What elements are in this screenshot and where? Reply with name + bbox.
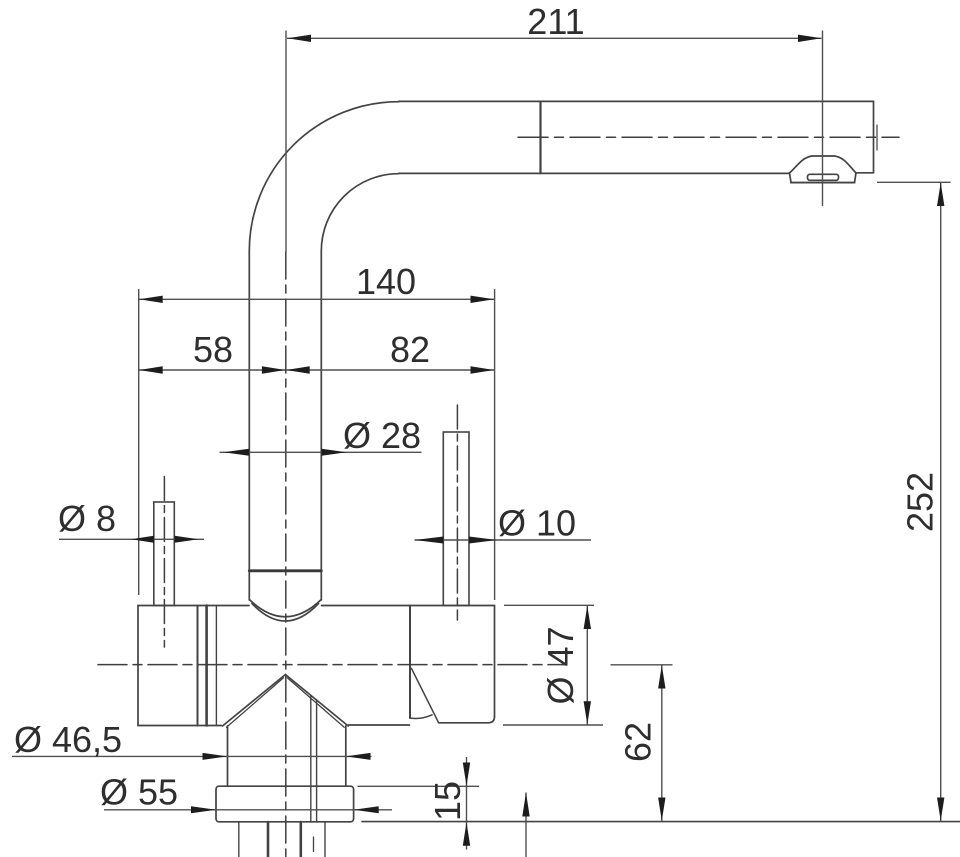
svg-text:140: 140 [356, 261, 416, 302]
right valve arc [410, 715, 432, 719]
dia10 leader [415, 539, 592, 541]
arrow 62 bottom [658, 798, 665, 821]
base reference arrow line [525, 793, 527, 857]
pipe socket arc lower [252, 604, 319, 622]
tube axis dash [313, 837, 315, 852]
right valve vertical [409, 606, 411, 719]
tailpiece tube 4 [324, 822, 326, 857]
aerator nozzle [808, 174, 839, 180]
body bottom left [138, 725, 222, 727]
cartridge line 1 [197, 606, 199, 726]
pipe socket arc upper [249, 600, 321, 617]
pipe right wall [320, 251, 322, 600]
aerator dome [790, 156, 857, 173]
spout top line [399, 100, 874, 102]
pipe axis centerline [285, 252, 287, 857]
arrow dia46.5 right [346, 753, 371, 760]
neck left wall [227, 726, 229, 786]
right rod axis [456, 405, 458, 620]
dia47 top extension [504, 604, 594, 606]
arrow 140 left [139, 296, 163, 303]
arrow 62 top [658, 665, 665, 688]
arrow 15 bottom [463, 822, 470, 846]
cartridge line 2 [205, 606, 208, 726]
left handle rod [154, 502, 175, 606]
svg-text:252: 252 [900, 472, 941, 532]
spout end tick [876, 125, 878, 150]
left rod axis [163, 477, 165, 648]
pipe bend inner arc [321, 174, 398, 251]
dim 211 left extension [285, 31, 287, 253]
svg-text:Ø 47: Ø 47 [540, 626, 581, 704]
aerator skirt [790, 173, 857, 183]
cone outer left [223, 675, 286, 727]
arrow dia10 left [415, 537, 444, 544]
arrow 15 top [463, 763, 470, 787]
arrow dia47 bottom [584, 701, 591, 724]
dia47 dim line [586, 605, 588, 725]
pipe bend outer arc [249, 102, 398, 251]
dia55 leader [104, 809, 392, 811]
arrow 140 right [471, 296, 495, 303]
svg-text:82: 82 [390, 329, 430, 370]
arrow dia55 right [354, 806, 379, 813]
svg-text:15: 15 [427, 781, 468, 821]
arrow 252 top [937, 183, 944, 206]
inner tube line left [310, 696, 312, 823]
neck right wall [345, 726, 347, 786]
spout centerline [518, 136, 899, 138]
countertop base line [362, 821, 960, 823]
svg-text:Ø 46,5: Ø 46,5 [14, 719, 122, 760]
dim 15 top extension [358, 785, 480, 787]
aerator skirt bottom [791, 182, 855, 184]
inner tube line right [316, 700, 318, 822]
body top left [138, 605, 249, 607]
svg-text:Ø 8: Ø 8 [58, 498, 116, 539]
arrow dia28 left [224, 449, 250, 456]
arrow 82 right [471, 366, 495, 373]
body axis centerline [98, 664, 566, 666]
dim 252 top extension [877, 181, 951, 183]
arrow dia28 right [322, 449, 347, 456]
tailpiece tube 1 [238, 822, 240, 857]
dim 82 line [286, 369, 494, 371]
pipe joint bold line [249, 569, 321, 572]
dia47 bottom extension [503, 724, 603, 726]
arrow 58 left [139, 366, 163, 373]
dim 58 line [139, 369, 286, 371]
cone inner left [227, 678, 284, 728]
spray head junction line [539, 102, 541, 174]
arrow dia8 right [175, 536, 199, 543]
body bottom middle [349, 724, 410, 726]
tailpiece tube 3 [299, 822, 302, 857]
arrow 211 left [288, 35, 312, 42]
spout bottom right segment [856, 172, 874, 174]
cone outer right [285, 675, 348, 727]
flange [216, 786, 354, 822]
arrow 58 right [262, 366, 286, 373]
arrow dia46.5 left [203, 753, 228, 760]
cartridge line 3 [215, 606, 217, 726]
right valve diagonal [412, 669, 439, 723]
dim 211 right extension / aerator axis [822, 31, 824, 207]
body bottom right [439, 717, 495, 723]
body right end [494, 606, 496, 717]
svg-text:58: 58 [193, 329, 233, 370]
arrow 82 left [286, 366, 310, 373]
arrow dia47 top [584, 606, 591, 629]
dim 140 line [139, 298, 495, 300]
dim 252 line [940, 182, 942, 821]
svg-text:Ø 10: Ø 10 [498, 503, 576, 544]
dim 140 left extension [138, 289, 140, 595]
pipe left wall [248, 251, 250, 600]
cone inner right [287, 678, 344, 728]
svg-text:211: 211 [527, 1, 584, 42]
svg-text:62: 62 [618, 722, 659, 762]
spout right end cap [873, 101, 875, 172]
spout bottom left segment [399, 172, 790, 174]
dim 62 line [661, 665, 663, 821]
dim 15 line [466, 757, 468, 850]
right lever rod [443, 432, 469, 606]
dia28 leader [220, 451, 422, 453]
body left end [137, 606, 139, 726]
arrow dia8 left [131, 536, 154, 543]
dim 140 right extension [494, 289, 496, 600]
arrow 211 right [798, 35, 822, 42]
body top right [322, 605, 495, 607]
tailpiece tube 2 [267, 822, 270, 857]
arrow 252 bottom [937, 798, 944, 821]
dim 211 line [287, 37, 822, 39]
arrow dia10 right [469, 537, 497, 544]
dim 62 top extension [611, 664, 673, 666]
dia8 leader [59, 538, 204, 540]
svg-text:Ø 55: Ø 55 [100, 772, 178, 813]
arrow base reference [522, 793, 529, 817]
svg-text:Ø 28: Ø 28 [343, 415, 421, 456]
dia46.5 leader [12, 755, 372, 757]
arrow dia55 left [191, 806, 216, 813]
